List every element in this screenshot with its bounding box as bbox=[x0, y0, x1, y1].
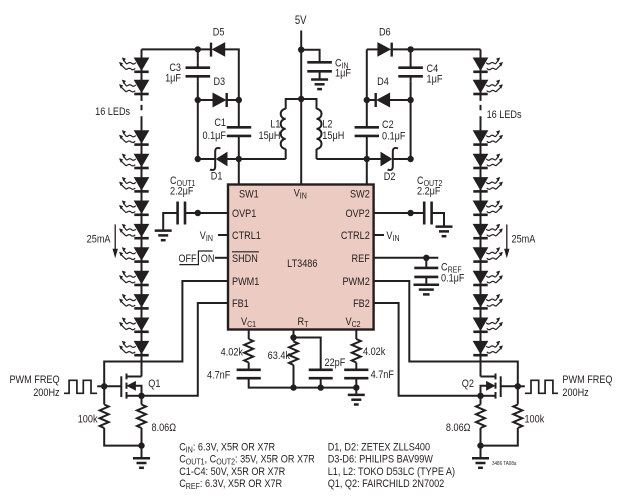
node REF/CREF bbox=[423, 255, 429, 261]
ground VC bus bbox=[348, 395, 365, 405]
wire rail B to C1 bbox=[238, 100, 240, 159]
svg-text:D3: D3 bbox=[213, 76, 225, 88]
capacitor COUT1 2.2uF bbox=[178, 202, 185, 225]
capacitor C4 1uF bbox=[398, 68, 423, 77]
node VC2 bus ground bbox=[353, 384, 359, 390]
svg-text:L2: L2 bbox=[322, 119, 332, 131]
node D4 rail Ap bbox=[407, 97, 413, 103]
capacitor C2 0.1uF bbox=[355, 127, 379, 136]
svg-text:25mA: 25mA bbox=[87, 234, 111, 246]
svg-text:1μF: 1μF bbox=[335, 68, 351, 80]
wire rail A upper segment bbox=[197, 49, 199, 159]
svg-text:1μF: 1μF bbox=[165, 73, 181, 85]
resistor 4.02k (VC1) bbox=[244, 339, 253, 363]
wire OVP2 to COUT2 node bbox=[374, 212, 425, 214]
svg-text:8.06Ω: 8.06Ω bbox=[446, 422, 471, 434]
svg-text:0.1μF: 0.1μF bbox=[441, 273, 464, 285]
wire D1 anode to L1 bottom bbox=[227, 158, 286, 160]
svg-text:8.06Ω: 8.06Ω bbox=[152, 422, 177, 434]
svg-text:SW1: SW1 bbox=[239, 189, 259, 201]
wire CTRL1 stub bbox=[218, 234, 228, 236]
label L2 15uH bbox=[322, 119, 344, 143]
wire L2 top lead bbox=[301, 99, 316, 109]
wire D3 anode lead bbox=[198, 99, 213, 101]
wire bus to VC2 branch bbox=[294, 387, 357, 389]
node SW1 rail B bbox=[236, 156, 242, 162]
svg-text:3486 TA08a: 3486 TA08a bbox=[492, 461, 517, 468]
node D2 rail Ap bbox=[407, 156, 413, 162]
svg-text:2.2μF: 2.2μF bbox=[170, 186, 193, 198]
label L1 15uH bbox=[259, 119, 281, 143]
wire 100k bottom to ground node (right) bbox=[481, 428, 518, 446]
ground Q2 bbox=[472, 458, 489, 468]
node Q1 gate bbox=[101, 383, 107, 389]
node SW2 rail Bp bbox=[364, 156, 370, 162]
wire Q1 source to 8.06 bbox=[141, 396, 143, 405]
svg-text:1μF: 1μF bbox=[427, 74, 443, 86]
svg-text:16 LEDs: 16 LEDs bbox=[487, 109, 522, 121]
svg-text:2.2μF: 2.2μF bbox=[417, 186, 440, 198]
wire REF bbox=[374, 257, 439, 259]
svg-text:CREF: 6.3V, X5R OR X7R: CREF: 6.3V, X5R OR X7R bbox=[179, 478, 282, 491]
label COUT2 2.2uF bbox=[417, 175, 442, 197]
LED string right (16 LEDs) bbox=[473, 49, 502, 376]
svg-text:PWM FREQ: PWM FREQ bbox=[562, 374, 612, 386]
wire D3 cathode to rail B bbox=[227, 99, 239, 101]
wire 22pF to bus bbox=[320, 378, 322, 387]
label PWM FREQ 200Hz (left) bbox=[9, 374, 59, 399]
label C2 0.1uF bbox=[382, 119, 405, 142]
wire SW2 bbox=[366, 159, 368, 185]
capacitor COUT2 2.2uF bbox=[424, 202, 431, 225]
svg-text:4.7nF: 4.7nF bbox=[371, 369, 394, 381]
inductor L1 15uH bbox=[281, 109, 286, 149]
25mA arrow (right) bbox=[504, 224, 509, 258]
wire COUT1 right lead bbox=[185, 212, 198, 214]
label CIN 1uF bbox=[335, 58, 351, 80]
wire ground stub Q1 bbox=[141, 446, 143, 458]
svg-text:FB2: FB2 bbox=[353, 298, 370, 310]
wire CREF to ground bbox=[425, 277, 427, 285]
svg-text:D6: D6 bbox=[379, 27, 391, 39]
resistor 8.06 ohm (left) bbox=[137, 405, 146, 429]
svg-text:SHDN: SHDN bbox=[232, 253, 258, 265]
wire D6 cathode to LED string bbox=[392, 48, 481, 50]
wire 4.7nF to bus gnd node bbox=[355, 378, 357, 394]
capacitor CREF 0.1uF bbox=[414, 268, 438, 277]
svg-text:16 LEDs: 16 LEDs bbox=[95, 106, 130, 118]
label CREF 0.1uF bbox=[441, 262, 464, 285]
svg-text:Q1: Q1 bbox=[148, 378, 161, 390]
capacitor 22pF bbox=[309, 370, 333, 378]
svg-text:15μH: 15μH bbox=[259, 130, 281, 142]
wire PWM source to gate node (right) bbox=[518, 385, 525, 387]
wire CREF top lead bbox=[425, 258, 427, 268]
svg-text:5V: 5V bbox=[295, 14, 307, 27]
node OVP2/COUT2 bbox=[407, 210, 413, 216]
diode D1 (Schottky) bbox=[210, 148, 227, 170]
wire right top: rail Bp corner to LED string bbox=[367, 48, 378, 50]
OFF/ON shutdown symbol bbox=[178, 251, 214, 265]
svg-text:SW2: SW2 bbox=[350, 189, 370, 201]
ground CREF bbox=[414, 285, 440, 295]
svg-text:D3-D6: PHILIPS BAV99W: D3-D6: PHILIPS BAV99W bbox=[328, 454, 434, 466]
svg-text:CIN: 6.3V, X5R OR X7R: CIN: 6.3V, X5R OR X7R bbox=[179, 442, 275, 455]
wire VC1 stub bbox=[248, 330, 250, 340]
svg-text:D1: D1 bbox=[211, 171, 223, 183]
wire 63.4k to bus bbox=[293, 365, 295, 388]
wire COUT1 to ground bbox=[163, 213, 177, 231]
ground COUT1 bbox=[155, 231, 172, 241]
wire Q2 source to 8.06 bbox=[480, 396, 482, 405]
node RT bbox=[290, 334, 296, 340]
wire 5V to VIN pin bbox=[300, 31, 302, 185]
25mA arrow (left) bbox=[113, 224, 118, 258]
wire 4.02k to 4.7nF bbox=[248, 363, 250, 370]
wire CTRL2 stub bbox=[374, 234, 384, 236]
svg-text:100k: 100k bbox=[78, 414, 99, 426]
wire L1 top lead bbox=[286, 99, 302, 109]
node top left rail A bbox=[195, 46, 201, 52]
capacitor 4.7nF (VC1) bbox=[237, 370, 261, 378]
svg-text:PWM FREQ: PWM FREQ bbox=[9, 374, 59, 386]
label COUT1 2.2uF bbox=[170, 175, 195, 197]
svg-text:Q1, Q2: FAIRCHILD 2N7002: Q1, Q2: FAIRCHILD 2N7002 bbox=[328, 478, 445, 490]
wire rail Bp to C2 bbox=[366, 100, 368, 159]
5V supply bbox=[295, 14, 307, 27]
wire 100k top (left) bbox=[103, 386, 105, 404]
wire rail Ap upper segment bbox=[410, 49, 412, 159]
LED string left (16 LEDs) bbox=[119, 49, 148, 376]
Q2 mirrored assembly bbox=[472, 374, 558, 468]
wire 4.02k to 4.7nF (VC2) bbox=[355, 363, 357, 370]
node L1/L2 junction bbox=[298, 96, 304, 102]
svg-text:CTRL1: CTRL1 bbox=[232, 230, 261, 242]
node 63.4k bus bbox=[290, 384, 296, 390]
PWM input square wave (right) bbox=[525, 380, 558, 393]
svg-text:REF: REF bbox=[352, 253, 370, 265]
svg-text:15μH: 15μH bbox=[322, 130, 344, 142]
svg-text:FB1: FB1 bbox=[232, 298, 249, 310]
svg-text:OVP1: OVP1 bbox=[232, 208, 257, 220]
svg-text:LT3486: LT3486 bbox=[287, 258, 318, 270]
wire OVP1 to COUT1 node bbox=[198, 212, 228, 214]
node D3 anode rail A bbox=[195, 97, 201, 103]
node top right rail Ap bbox=[407, 46, 413, 52]
capacitor C1 0.1uF bbox=[227, 127, 251, 136]
wire RT to 22pF branch bbox=[294, 338, 321, 370]
wire 8.06 to ground node (right) bbox=[480, 428, 482, 446]
svg-text:C2: C2 bbox=[382, 119, 394, 131]
svg-text:L1: L1 bbox=[270, 119, 280, 131]
wire SW1 bbox=[238, 159, 240, 185]
resistor 4.02k (VC2) bbox=[352, 339, 361, 363]
resistor 63.4k (RT) bbox=[289, 341, 298, 365]
node Q2 source/FB2 bbox=[477, 393, 483, 399]
wire left top: LED string to rail A bbox=[142, 48, 212, 50]
svg-text:L1, L2: TOKO D53LC (TYPE A): L1, L2: TOKO D53LC (TYPE A) bbox=[328, 466, 455, 478]
wire D5 anode to rail B corner bbox=[225, 49, 239, 100]
svg-text:ON: ON bbox=[201, 253, 215, 265]
diode D2 (Schottky) bbox=[381, 148, 398, 170]
wire CIN to ground bbox=[319, 71, 321, 79]
wire FB1 route to Q1 source bbox=[142, 303, 229, 396]
diode D3 bbox=[213, 93, 227, 107]
svg-text:4.7nF: 4.7nF bbox=[207, 370, 230, 382]
node OVP1/COUT1 bbox=[195, 210, 201, 216]
label PWM FREQ 200Hz (right) bbox=[562, 374, 612, 399]
svg-text:200Hz: 200Hz bbox=[33, 387, 59, 399]
svg-text:CTRL2: CTRL2 bbox=[341, 230, 370, 242]
svg-text:OFF: OFF bbox=[178, 253, 196, 265]
svg-text:C1: C1 bbox=[214, 117, 226, 129]
svg-text:100k: 100k bbox=[525, 414, 546, 426]
wire 4.7nF to bus bbox=[249, 378, 294, 387]
resistor 100k (right) bbox=[513, 405, 522, 429]
node Q1 source/FB1 bbox=[138, 393, 144, 399]
notes column parts bbox=[328, 442, 455, 491]
wire L2 bottom lead bbox=[316, 149, 318, 159]
wire 100k top (right) bbox=[517, 386, 519, 404]
node 22pF bus bbox=[318, 384, 324, 390]
svg-text:PWM1: PWM1 bbox=[232, 276, 260, 288]
wire FB2 route to Q2 source bbox=[374, 303, 481, 396]
ground COUT2 bbox=[436, 227, 453, 237]
svg-text:63.4k: 63.4k bbox=[268, 350, 291, 362]
diode D4 bbox=[376, 93, 390, 107]
wire D1 row left bbox=[198, 158, 215, 160]
capacitor 4.7nF (VC2) bbox=[344, 370, 368, 378]
diode D6 bbox=[378, 43, 392, 57]
wire ground stub Q2 bbox=[480, 446, 482, 458]
wire 100k bottom to ground node (left) bbox=[104, 428, 141, 446]
svg-text:C1-C4: 50V, X5R OR X7R: C1-C4: 50V, X5R OR X7R bbox=[179, 466, 285, 478]
wire L1 bottom lead bbox=[285, 149, 287, 159]
transistor Q1 2N7002 bbox=[104, 374, 141, 399]
resistor 100k (left) bbox=[100, 405, 109, 429]
op-amp U1 LT3486 IC body bbox=[228, 185, 374, 330]
wire D2 cathode to rail Ap bbox=[393, 158, 411, 160]
svg-text:PWM2: PWM2 bbox=[342, 276, 370, 288]
node D1 cathode rail A bbox=[195, 156, 201, 162]
svg-text:Q2: Q2 bbox=[462, 378, 475, 390]
label C3 1uF bbox=[165, 62, 181, 84]
wire CIN branch bbox=[301, 50, 319, 62]
svg-text:0.1μF: 0.1μF bbox=[203, 130, 226, 142]
wire D2 row from L2 bbox=[317, 158, 382, 160]
svg-text:OVP2: OVP2 bbox=[345, 208, 370, 220]
svg-text:D1, D2: ZETEX ZLLS400: D1, D2: ZETEX ZLLS400 bbox=[328, 442, 431, 454]
wire SHDN stub bbox=[215, 257, 228, 259]
wire D4 anode lead from rail Bp bbox=[367, 99, 376, 101]
notes column capacitors bbox=[179, 442, 315, 492]
svg-text:200Hz: 200Hz bbox=[562, 387, 588, 399]
svg-text:4.02k: 4.02k bbox=[221, 347, 244, 359]
ground CIN bbox=[311, 80, 328, 90]
wire PWM2 route to Q2 gate node bbox=[374, 281, 518, 386]
svg-text:0.1μF: 0.1μF bbox=[382, 131, 405, 143]
node 5V/CIN junction bbox=[298, 47, 304, 53]
node Q2 ground bbox=[477, 442, 483, 448]
wire D4 to rail Ap bbox=[390, 99, 411, 101]
label C4 1uF bbox=[427, 63, 443, 85]
wire COUT2 to ground bbox=[432, 213, 444, 226]
wire RT stub bbox=[293, 330, 295, 342]
svg-text:VIN: VIN bbox=[386, 230, 399, 243]
wire 8.06 to ground node (left) bbox=[141, 428, 143, 446]
node D4 rail Bp bbox=[364, 97, 370, 103]
ground Q1 bbox=[133, 458, 150, 468]
wire PWM1 route to Q1 gate node bbox=[104, 281, 228, 386]
capacitor CIN 1uF bbox=[307, 62, 332, 71]
PWM input square wave (left) bbox=[64, 380, 97, 393]
svg-text:VIN: VIN bbox=[200, 230, 213, 243]
transistor Q2 2N7002 bbox=[481, 374, 518, 399]
node Q2 gate bbox=[515, 383, 521, 389]
node D3 cathode rail B bbox=[236, 97, 242, 103]
node Q1 ground bbox=[138, 442, 144, 448]
wire PWM source to gate node (left) bbox=[97, 385, 104, 387]
label C1 0.1uF bbox=[203, 117, 227, 142]
svg-text:D2: D2 bbox=[384, 171, 396, 183]
inductor L2 15uH bbox=[317, 109, 322, 149]
capacitor C3 1uF bbox=[186, 68, 211, 77]
svg-text:25mA: 25mA bbox=[512, 234, 536, 246]
svg-text:4.02k: 4.02k bbox=[363, 346, 386, 358]
svg-text:D5: D5 bbox=[213, 27, 225, 39]
svg-text:COUT1, COUT2: 35V, X5R OR X7R: COUT1, COUT2: 35V, X5R OR X7R bbox=[179, 454, 315, 467]
svg-text:22pF: 22pF bbox=[325, 357, 346, 369]
wire VC2 stub bbox=[355, 330, 357, 340]
diode D5 bbox=[211, 43, 225, 57]
svg-text:D4: D4 bbox=[377, 76, 389, 88]
wire rail Bp upper bbox=[366, 49, 368, 100]
resistor 8.06 ohm (right) bbox=[476, 405, 485, 429]
